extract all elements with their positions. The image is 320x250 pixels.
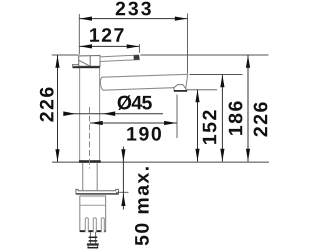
aerator [174, 85, 187, 91]
thread tick 1 [89, 236, 98, 238]
bracket slot 1 [85, 218, 88, 233]
flange bottom dark edge [76, 193, 119, 195]
aerator centerline extension [176, 95, 178, 139]
label Ø45 [118, 95, 152, 110]
dim 127 extension line [138, 44, 140, 53]
end nut [87, 243, 99, 245]
label 226 [40, 87, 54, 121]
mounting flange [76, 189, 119, 194]
label 152 [203, 110, 217, 143]
dim 152 bottom arrow [195, 149, 199, 162]
bracket bottom dark bar [80, 230, 106, 232]
label 190 [127, 127, 161, 141]
handle-top extension line right [140, 54, 268, 56]
dim 226 left top arrow [55, 55, 59, 67]
dim 190 line [90, 122, 177, 124]
label 226 [254, 102, 268, 136]
dim 186 line [221, 75, 223, 162]
shank below deck [82, 163, 84, 191]
dim Ø45 right arrow [103, 111, 115, 116]
handle cap bottom dark bar [73, 66, 100, 68]
dim 127 right arrow [127, 44, 140, 48]
threaded stud [89, 232, 91, 244]
dim 152 top arrow [195, 90, 199, 103]
mounting bracket [80, 196, 106, 231]
body centerline dashed [89, 107, 91, 169]
dim 226 right line [247, 55, 249, 162]
aerator-bottom extension line [187, 89, 217, 91]
spout [100, 74, 187, 90]
dim 233 line [79, 18, 187, 20]
body base dark bar [79, 160, 101, 163]
dim 127 left arrow [80, 44, 93, 48]
lever rod [100, 55, 139, 62]
spout-tip extension line [190, 74, 243, 76]
handle-top extension line left [52, 54, 79, 56]
dim 127 line [79, 45, 139, 47]
dim Ø45 line [63, 113, 163, 115]
dim 50max line [122, 147, 124, 210]
dim 152 line [197, 90, 199, 162]
aerator dark bottom bar [174, 90, 187, 92]
label 233 [116, 2, 151, 16]
bracket slot 3 [101, 218, 104, 233]
thread tick 2 [89, 240, 98, 242]
bracket slot 2 [93, 218, 96, 233]
flange extension line [116, 191, 129, 193]
faucet body right edge [99, 68, 101, 162]
dim 233 right arrow [175, 17, 188, 21]
label 50 max. [135, 167, 149, 245]
dim 190 left arrow [90, 121, 103, 125]
faucet body left edge [79, 68, 81, 162]
dim Ø45 left arrow [63, 111, 75, 116]
countertop deck line [52, 161, 269, 163]
bracket divider line [80, 204, 106, 206]
dim 226 right top arrow [246, 55, 250, 67]
dim 50max up arrow [121, 194, 125, 207]
dim 226 left bottom arrow [55, 149, 59, 162]
dim 226 right bottom arrow [246, 149, 250, 162]
dim 233 left arrow [80, 17, 93, 21]
dim 186 bottom arrow [220, 149, 224, 162]
dim 186 top arrow [220, 75, 224, 88]
handle cap [73, 55, 101, 66]
label 186 [229, 101, 243, 135]
dim 50max down arrow [121, 149, 125, 162]
dim 226 left line [57, 55, 59, 162]
lever rod dark tip [134, 55, 140, 60]
dim 190 right arrow [164, 121, 177, 125]
dim 233 left extension line [78, 14, 80, 55]
label 127 [90, 28, 123, 42]
dim 233 right extension line [187, 14, 189, 74]
